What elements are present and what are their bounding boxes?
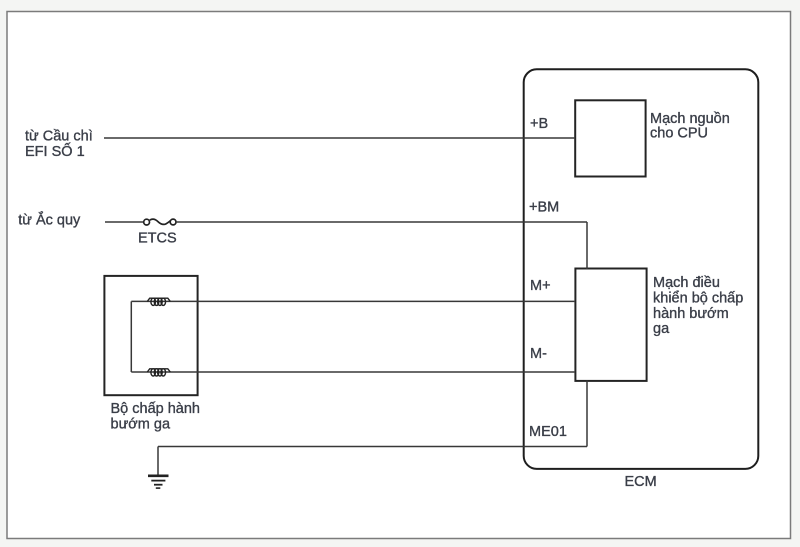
wire M+: [131, 300, 574, 302]
svg-text:hành bướm: hành bướm: [653, 306, 729, 322]
svg-text:Bộ chấp hành: Bộ chấp hành: [111, 401, 201, 417]
inductor coil L1: [147, 298, 170, 305]
svg-text:khiển bộ chấp: khiển bộ chấp: [653, 291, 743, 307]
svg-text:Mạch điều: Mạch điều: [653, 275, 720, 291]
svg-text:M+: M+: [530, 278, 551, 294]
wire ME01 horizontal: [158, 446, 587, 448]
wire +BM vertical: [586, 222, 588, 269]
svg-text:ETCS: ETCS: [138, 230, 177, 246]
throttle actuator box: [104, 276, 197, 395]
svg-text:M-: M-: [530, 346, 547, 362]
wire actuator internal vertical: [130, 301, 132, 372]
wire ground riser: [157, 447, 159, 475]
svg-text:+BM: +BM: [529, 200, 559, 216]
svg-text:từ Cầu chì: từ Cầu chì: [25, 129, 93, 145]
block: Mach dieu khien bo chap hanh buom ga: [575, 269, 646, 381]
block: Mach nguon cho CPU: [575, 100, 645, 176]
wire ME01 vertical from block: [586, 381, 588, 447]
svg-text:cho CPU: cho CPU: [650, 125, 708, 141]
svg-text:bướm ga: bướm ga: [111, 417, 171, 433]
svg-text:từ Ắc quy: từ Ắc quy: [18, 210, 81, 228]
ECM box: [524, 69, 759, 469]
svg-text:Mạch nguồn: Mạch nguồn: [650, 111, 730, 127]
ground: [148, 476, 169, 488]
svg-text:+B: +B: [530, 116, 548, 132]
inductor coil L2: [147, 369, 170, 376]
wire +B: [104, 137, 574, 139]
wire M-: [131, 371, 574, 373]
fuse ETCS: [144, 219, 176, 225]
svg-text:ME01: ME01: [529, 424, 567, 440]
svg-text:ga: ga: [653, 321, 670, 337]
svg-text:EFI SỐ 1: EFI SỐ 1: [25, 142, 85, 160]
wire +BM horizontal left of fuse: [105, 221, 144, 223]
wire +BM horizontal right of fuse: [176, 221, 587, 223]
svg-text:ECM: ECM: [625, 474, 657, 490]
